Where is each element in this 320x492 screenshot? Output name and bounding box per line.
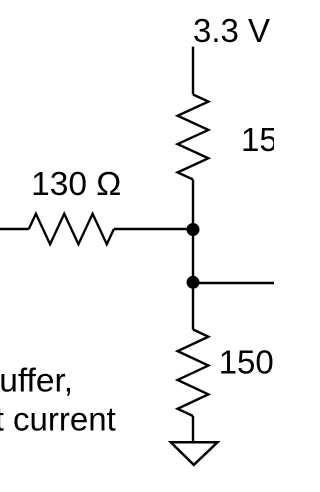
wire from node B to right edge (output)	[193, 282, 274, 284]
svg-text:150 Ω: 150 Ω	[241, 121, 274, 158]
wire from R2 to ground	[192, 416, 194, 442]
resistor R3 (horizontal, 130 ohm)	[29, 214, 114, 244]
node A junction dot	[187, 223, 200, 236]
wire from left edge to R3	[0, 228, 29, 230]
svg-text:uffer,: uffer,	[0, 363, 73, 400]
svg-text:t current: t current	[0, 400, 116, 437]
svg-text:130 Ω: 130 Ω	[31, 166, 121, 203]
node B junction dot	[187, 276, 200, 289]
svg-text:150 Ω: 150 Ω	[219, 344, 274, 381]
wire from R3 to node A	[114, 228, 193, 230]
svg-text:3.3 V: 3.3 V	[193, 12, 270, 49]
resistor R1 (vertical, 150 ohm pull-up)	[178, 95, 209, 180]
resistor R2 (vertical, 150 ohm pull-down)	[178, 330, 209, 417]
ground	[171, 442, 218, 465]
wire from 3.3 V supply down to R1	[192, 47, 194, 95]
wire from R1 down through nodes to R2	[192, 180, 194, 330]
